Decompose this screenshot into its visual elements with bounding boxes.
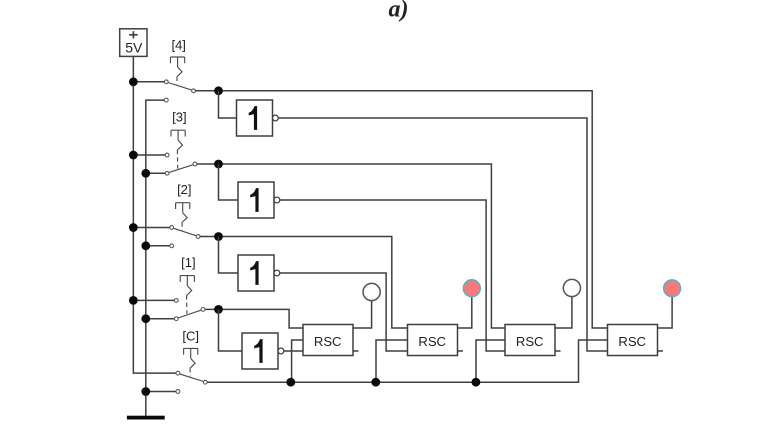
switch S3 key [3] (165, 109, 197, 175)
wire S4 upper contact to +5V bus (133, 81, 164, 83)
node junction clock tap RSC2 (371, 378, 380, 387)
RS flip-flop U6 RSC (408, 325, 458, 356)
wire S1 output row to RSC1 S-input (205, 309, 303, 328)
node junction clock tap RSC1 (286, 378, 295, 387)
wire S3 output row to RSC3 S-input (197, 164, 505, 328)
wire RSC U5 Q output to lamp X1 (353, 300, 372, 328)
node junction S1 lower on ground bus (141, 314, 150, 323)
switch S1 key [1] (174, 255, 205, 321)
wire gate U3 output to RSC2 R-input (280, 273, 408, 351)
wire clock bus to RSC3 C-input (476, 340, 505, 382)
wire gate U4 output to RSC1 R-input (284, 350, 303, 352)
lamp X3 (off, white) (563, 279, 580, 296)
svg-text:RSC: RSC (418, 334, 446, 349)
wire SC output clock bus row (207, 340, 607, 382)
wire gate U2 output to RSC3 R-input (280, 200, 505, 351)
node junction row3 at gate U2 tap (214, 160, 223, 169)
wire S2 upper contact to +5V bus (133, 227, 169, 229)
node junction row2 at gate U3 tap (214, 232, 223, 241)
inverter gate U1 (logic 1 buffer with inversion bubble) (237, 100, 279, 136)
svg-text:RSC: RSC (618, 334, 646, 349)
node junction S2 upper on +5V bus (129, 223, 138, 232)
wire S3 upper contact to +5V bus (133, 154, 165, 156)
node junction row4 at gate U1 tap (214, 86, 223, 95)
wire gate U1 output to RSC4 R-input (278, 118, 607, 351)
svg-text:RSC: RSC (516, 334, 544, 349)
lamp X1 (off, white) (363, 283, 380, 300)
power source V1 +5V (120, 29, 147, 57)
switch S2 key [2] (170, 182, 200, 248)
switch SC key [C] (176, 329, 207, 394)
svg-text:[2]: [2] (177, 182, 191, 197)
inverter gate U4 (logic 1 buffer with inversion bubble) (242, 333, 284, 369)
wire RSC U6 Q output to lamp X2 (458, 296, 472, 328)
node junction SC lower on ground bus (141, 387, 150, 396)
wire row4 tap down to gate U1 input (219, 91, 237, 118)
svg-text:[1]: [1] (181, 255, 195, 270)
wire RSC U7 lower output stub (555, 350, 561, 352)
wire S2 output row to RSC2 S-input (200, 237, 408, 329)
wire row2 tap down to gate U3 input (219, 237, 239, 274)
wire clock bus to RSC2 C-input (376, 340, 408, 382)
node junction S2 lower on ground bus (141, 241, 150, 250)
wire RSC U5 lower output stub (353, 350, 359, 352)
wire row3 tap down to gate U2 input (219, 164, 239, 200)
svg-text:[C]: [C] (182, 329, 199, 344)
wire SC lower contact to ground bus (146, 391, 176, 393)
wire S1 upper contact to +5V bus (133, 299, 174, 301)
wire RSC U7 Q output to lamp X3 (555, 296, 572, 328)
node junction S4 upper on +5V bus (129, 77, 138, 86)
RS flip-flop U5 RSC (303, 325, 353, 356)
svg-text:RSC: RSC (314, 334, 342, 349)
lamp X4 (lit, red) (664, 280, 681, 297)
node junction S1 upper on +5V bus (129, 296, 138, 305)
svg-text:[4]: [4] (171, 38, 185, 53)
wire ground bus (right vertical to ground) (146, 100, 168, 416)
inverter gate U3 (logic 1 buffer with inversion bubble) (238, 255, 280, 291)
lamp X2 (lit, red) (463, 280, 480, 297)
node junction row1 at gate U4 tap (214, 305, 223, 314)
wire S3 lower contact to ground bus (146, 172, 165, 174)
wire S4 output row to RSC4 S-input (195, 91, 607, 328)
wire S2 lower contact to ground bus (146, 245, 170, 247)
inverter gate U2 (logic 1 buffer with inversion bubble) (238, 182, 280, 218)
svg-text:[3]: [3] (172, 109, 186, 124)
wire +5V bus (left vertical from V1, corner to switch C upper contact) (133, 56, 176, 373)
wire RSC U8 Q output to lamp X4 (658, 297, 673, 329)
wire RSC U8 lower output stub (658, 350, 664, 352)
RS flip-flop U8 RSC (608, 325, 658, 356)
node junction S3 lower on ground bus (141, 169, 150, 178)
node junction clock tap RSC3 (472, 378, 481, 387)
wire S1 lower contact to ground bus (146, 318, 175, 320)
node junction S3 upper on +5V bus (129, 151, 138, 160)
wire row1 tap down to gate U4 input (219, 309, 243, 351)
svg-text:5V: 5V (125, 40, 143, 56)
wire clock bus to RSC1 C-input (292, 340, 303, 382)
switch S4 key [4] (164, 38, 195, 103)
RS flip-flop U7 RSC (505, 325, 555, 356)
svg-text:a): a) (389, 0, 409, 23)
ground (127, 416, 165, 420)
wire RSC U6 lower output stub (458, 350, 464, 352)
